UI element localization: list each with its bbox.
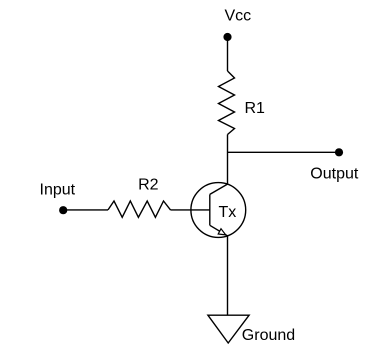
svg-text:R1: R1 bbox=[245, 100, 266, 117]
wire input dot to R2 bbox=[67, 209, 108, 211]
transistor Tx collector stroke bbox=[210, 184, 228, 194]
Output terminal dot bbox=[335, 148, 343, 156]
wire R2 to base bbox=[171, 209, 210, 211]
wire R1 bottom to collector node bbox=[227, 135, 229, 185]
resistor R1 bbox=[219, 71, 235, 135]
wire output branch bbox=[228, 151, 336, 153]
transistor Tx circle bbox=[191, 183, 246, 238]
svg-text:Vcc: Vcc bbox=[225, 8, 252, 25]
transistor Tx emitter stroke bbox=[210, 225, 228, 236]
svg-text:Ground: Ground bbox=[242, 327, 295, 344]
svg-text:Output: Output bbox=[310, 166, 359, 183]
transistor Tx emitter arrowhead bbox=[218, 229, 226, 235]
ground symbol bbox=[208, 315, 249, 343]
wire emitter to ground bbox=[227, 236, 229, 315]
wire Vcc dot to R1 top bbox=[227, 41, 229, 71]
svg-text:Input: Input bbox=[40, 182, 76, 199]
svg-text:Tx: Tx bbox=[219, 204, 237, 221]
resistor R2 bbox=[108, 201, 171, 217]
svg-text:R2: R2 bbox=[138, 176, 159, 193]
transistor Tx base bar bbox=[209, 194, 211, 225]
Vcc terminal dot bbox=[223, 33, 231, 41]
Input terminal dot bbox=[59, 206, 67, 214]
